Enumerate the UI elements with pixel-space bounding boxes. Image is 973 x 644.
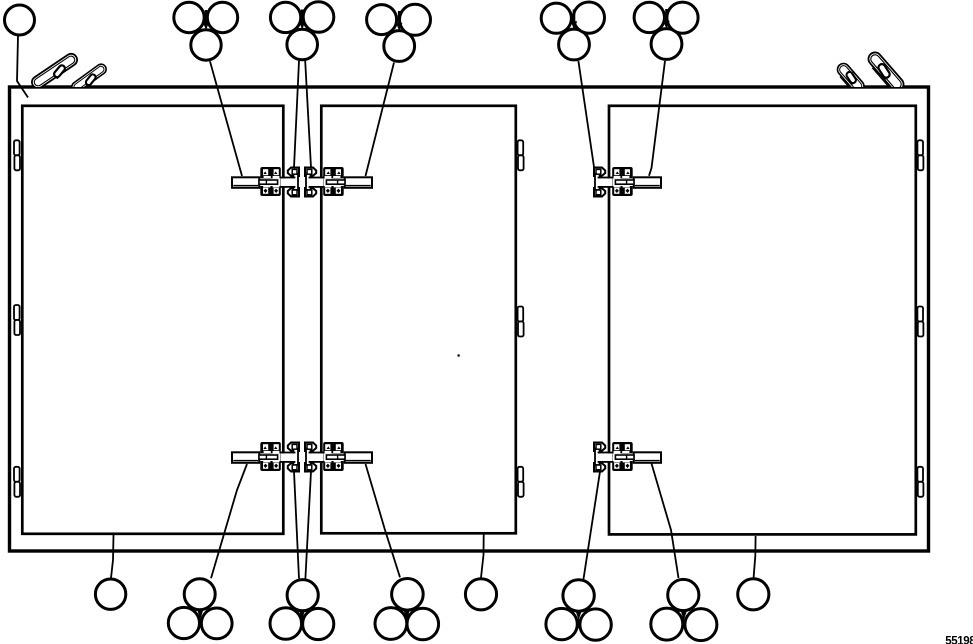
frame pin mark, centre stile upper xyxy=(518,140,524,170)
leader line: balloon cluster 5 to door-3 upper hinge arm xyxy=(649,61,665,176)
balloon: bottom-right single xyxy=(738,579,769,610)
balloon: bottom-middle single xyxy=(465,579,496,610)
fastener clip large, top-left xyxy=(30,51,81,92)
junction blob cluster E xyxy=(681,610,688,620)
balloon: top-left single xyxy=(5,5,35,35)
hinge H2: door1/door2 upper right xyxy=(305,167,372,197)
fastener clip small, top-left xyxy=(70,62,110,96)
leader line: balloon cluster 1 to upper-left hinge arm xyxy=(210,61,242,176)
balloon cluster A (top, bottom-left, bottom-right) xyxy=(184,579,215,610)
frame pin mark, right stile middle xyxy=(917,307,923,337)
leader line: top-left single balloon xyxy=(17,36,28,98)
junction blob cluster D xyxy=(575,610,582,620)
leader line: balloon cluster 4 to door-3 upper hinge cup xyxy=(578,61,594,167)
balloon cluster 5 xyxy=(651,29,682,60)
balloon cluster 1 (bottom, top-left, top-right) xyxy=(191,30,221,60)
junction blob cluster C xyxy=(404,610,411,620)
door panel 2 (middle) xyxy=(321,106,516,534)
fastener clip small, top-right xyxy=(834,61,866,95)
balloon cluster 2 xyxy=(287,29,318,60)
junction blob cluster 4 xyxy=(573,10,576,23)
junction blob cluster 2 xyxy=(301,10,304,23)
hinge H3: door1/door2 lower left xyxy=(232,442,299,472)
door panel 3 (right) xyxy=(609,106,916,535)
frame pin mark, centre stile middle xyxy=(518,307,524,337)
stray ink dot on door 2 xyxy=(458,354,460,356)
hinge H6: door 3 lower xyxy=(594,442,661,472)
balloon cluster C xyxy=(392,579,424,611)
balloon cluster B xyxy=(287,580,318,611)
frame pin mark, centre stile lower xyxy=(518,467,524,497)
door panel 1 (left) xyxy=(22,106,283,534)
leader line: lower-left hinge arm to cluster A xyxy=(211,464,247,578)
balloon cluster E xyxy=(668,579,699,610)
junction blob cluster 1 xyxy=(205,10,208,23)
junction blob cluster 5 xyxy=(665,9,668,22)
balloon: bottom-left single xyxy=(95,579,125,609)
fastener clip large, top-right xyxy=(865,50,906,95)
hinge H4: door1/door2 lower right xyxy=(305,442,372,472)
leader line: lower-right hinge arm to cluster C xyxy=(366,464,401,577)
frame pin mark, right stile lower xyxy=(917,467,923,497)
junction blob cluster 3 xyxy=(398,11,401,24)
svg-text:55198: 55198 xyxy=(945,636,973,644)
junction blob cluster A xyxy=(197,609,204,619)
leader line: door-3 lower hinge cup to cluster D xyxy=(584,472,601,580)
frame pin mark, left stile upper xyxy=(14,140,20,170)
hinge H5: door 3 upper xyxy=(594,167,661,197)
balloon cluster 3 xyxy=(384,31,415,62)
frame pin mark, right stile upper xyxy=(917,140,923,170)
frame pin mark, left stile middle xyxy=(14,305,20,335)
junction blob cluster B xyxy=(299,610,306,620)
leader line: bottom-left single balloon xyxy=(111,535,114,578)
cabinet outer frame xyxy=(10,87,929,551)
leader lines: lower hinge cups to cluster B xyxy=(294,472,299,579)
leader line: bottom-right single balloon xyxy=(754,536,756,578)
leader line: door-3 lower hinge arm to cluster E xyxy=(652,464,679,579)
frame pin mark, left stile lower xyxy=(14,467,20,497)
leader line: balloon cluster 3 to upper-right hinge arm xyxy=(366,63,395,177)
balloon cluster D xyxy=(563,580,594,611)
balloon cluster 4 xyxy=(559,29,590,60)
leader line: bottom-middle single balloon xyxy=(481,535,484,578)
hinge H1: door1/door2 upper left xyxy=(232,167,299,197)
leader lines: balloon cluster 2 to upper hinge cups xyxy=(294,61,299,168)
